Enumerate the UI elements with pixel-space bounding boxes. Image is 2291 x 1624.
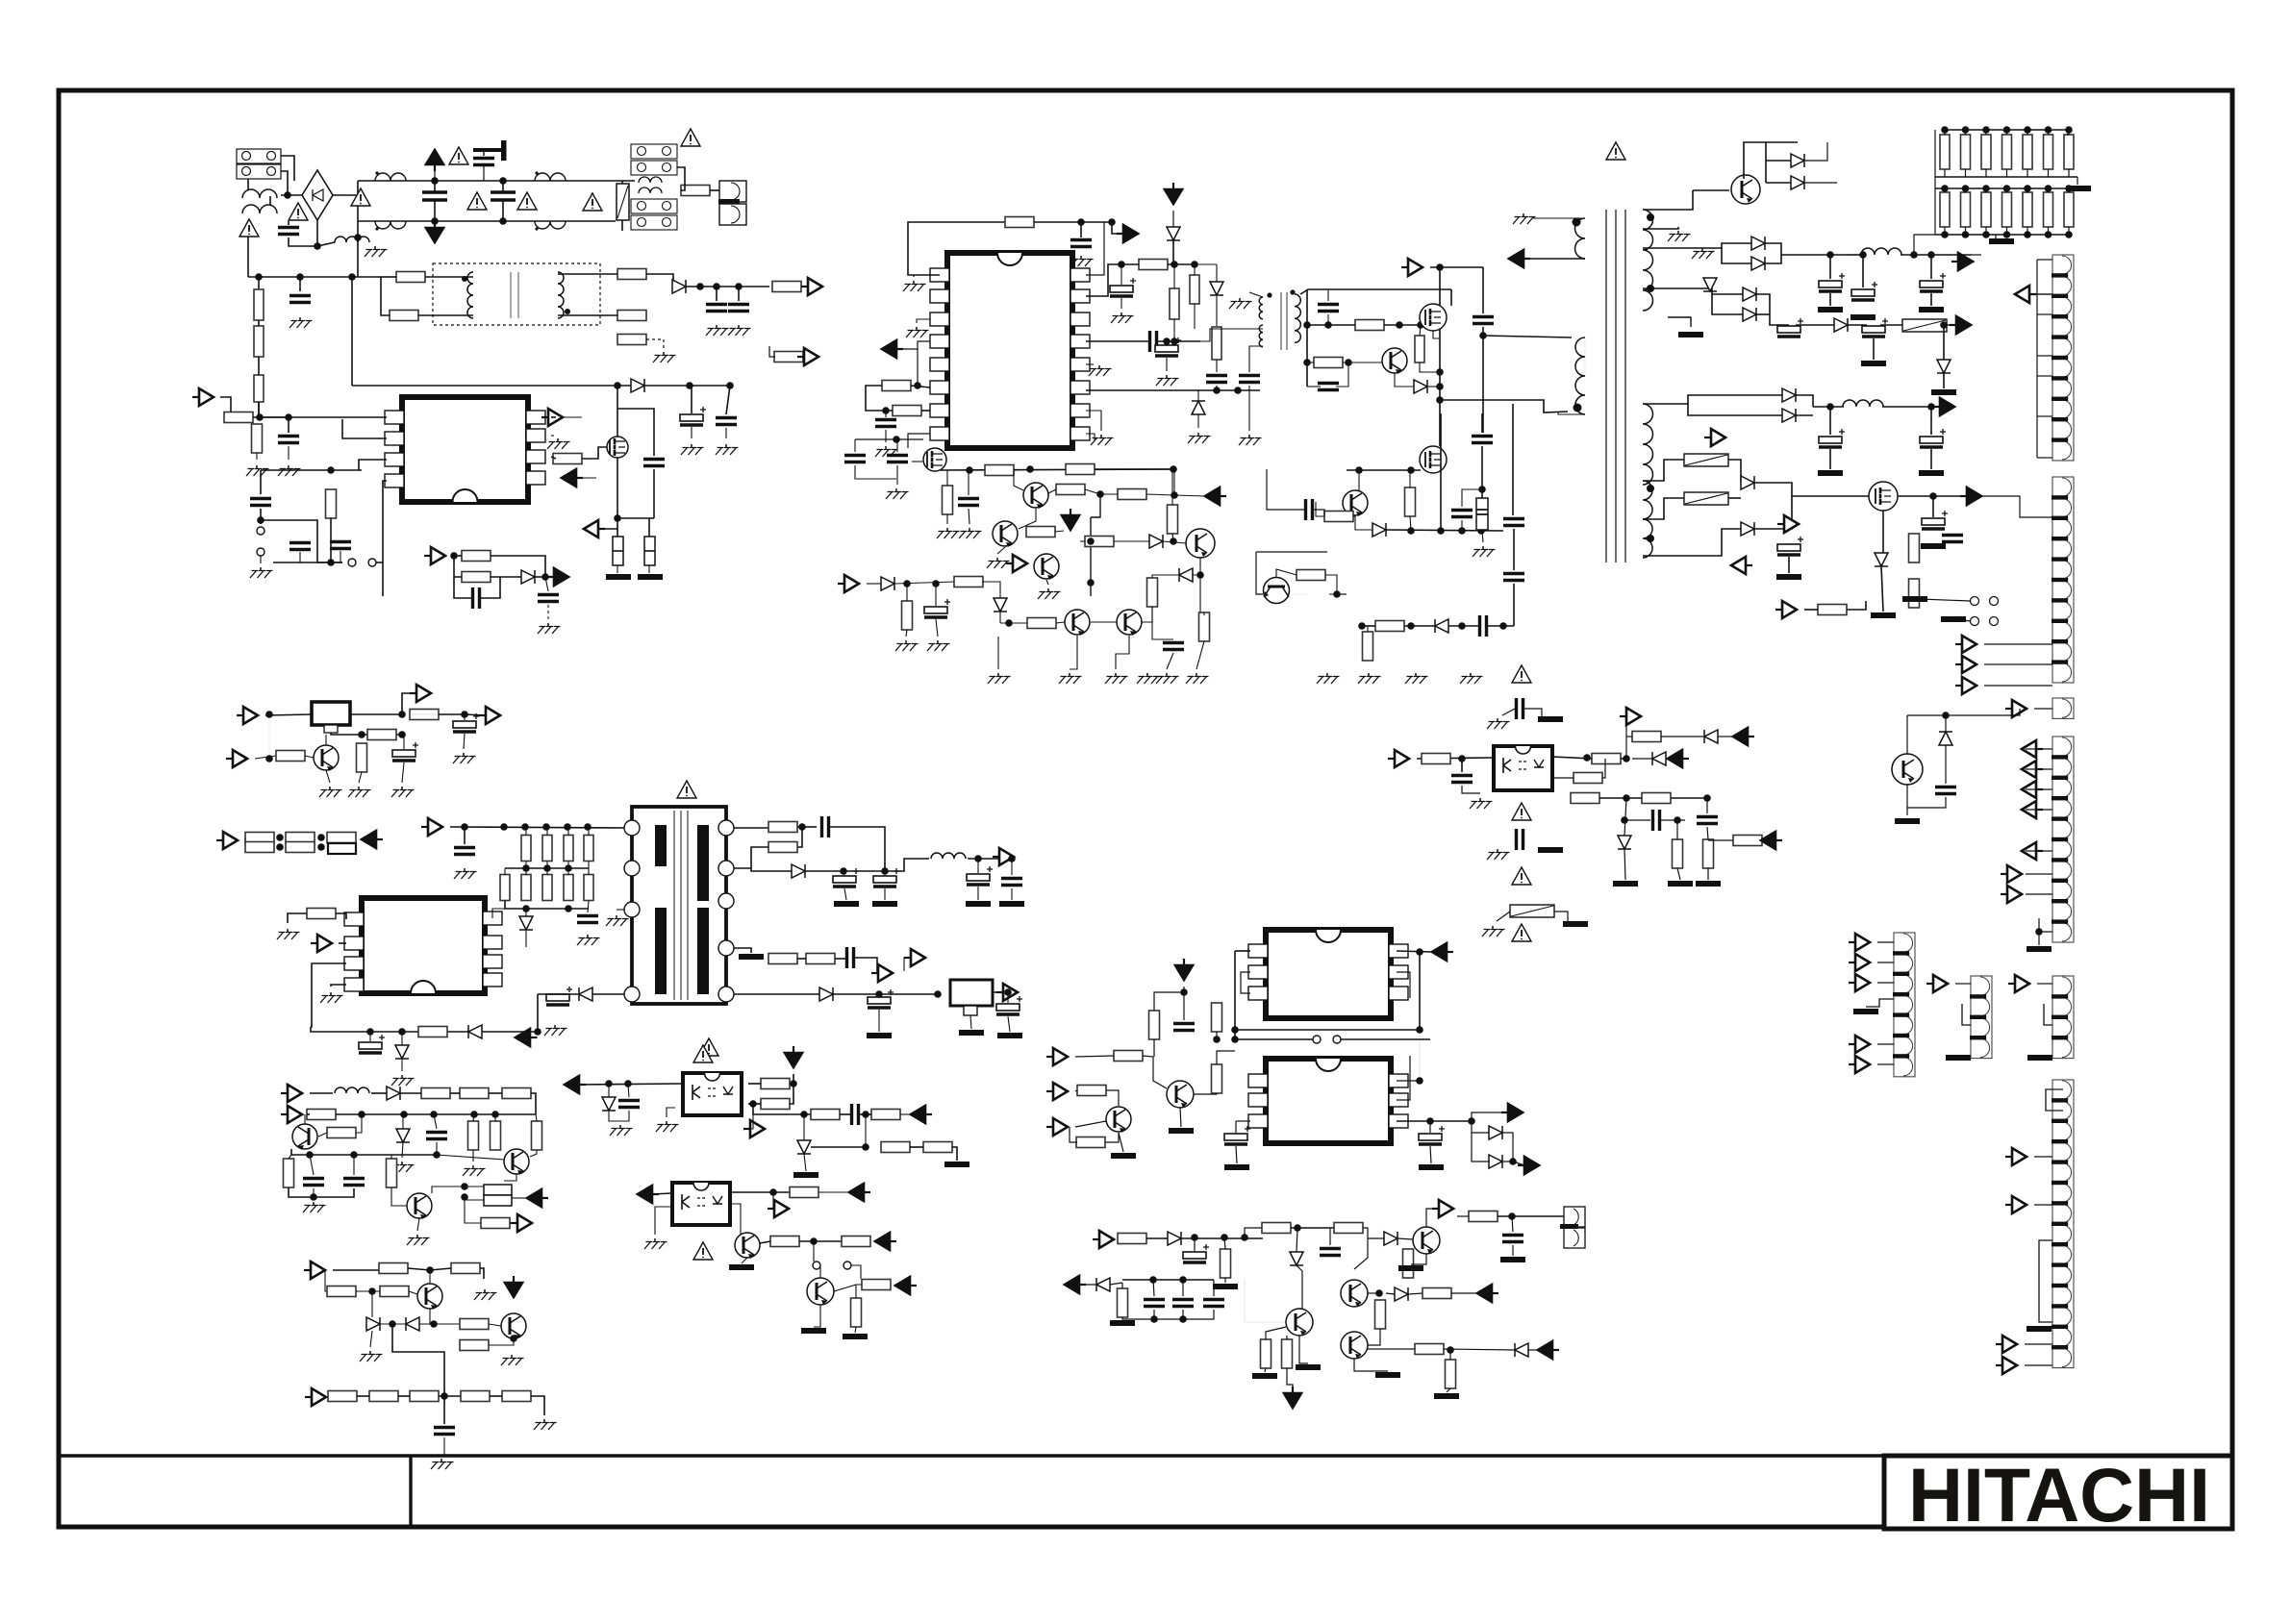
node junction (276, 843, 284, 851)
wire (804, 1154, 806, 1171)
wire (1450, 289, 1452, 306)
wire (906, 584, 908, 601)
relay coil K1 box (312, 702, 350, 725)
port arrow (875, 1233, 890, 1250)
wire (2048, 188, 2050, 192)
ground (547, 623, 549, 627)
T1 phase dot (1647, 535, 1654, 542)
ground (969, 528, 970, 532)
phase dot (1267, 292, 1271, 297)
wire (288, 913, 307, 923)
node junction (1417, 321, 1424, 329)
diode D26 (1834, 318, 1848, 332)
wire (1847, 601, 1866, 610)
wire (1985, 188, 1987, 192)
port arrow (288, 1106, 302, 1123)
port arrow (1933, 975, 1948, 992)
wire (2038, 932, 2040, 945)
resistor R24 (462, 572, 491, 583)
wire (339, 942, 346, 944)
wire (1307, 362, 1314, 363)
port arrow (486, 707, 500, 724)
wire (1197, 414, 1199, 428)
port arrow (1508, 1104, 1523, 1121)
wire (725, 428, 727, 438)
wire (439, 1395, 461, 1397)
zener ZD3 (797, 1140, 811, 1154)
wire (1901, 254, 1972, 256)
wire (818, 1191, 849, 1193)
wire (260, 470, 262, 494)
wire (1307, 324, 1355, 326)
wire (1533, 217, 1585, 219)
node junction (749, 1100, 757, 1108)
zener ZD10 (1192, 401, 1205, 414)
node junction (348, 273, 356, 281)
ground (885, 446, 887, 450)
wire (1829, 407, 1831, 435)
warning triangle (681, 129, 700, 146)
wire (843, 871, 844, 875)
bank resistor R112 (2002, 135, 2012, 169)
node junction (1458, 527, 1466, 535)
resistor R29 (245, 833, 274, 843)
node junction (366, 1028, 374, 1036)
IC1 right pin (526, 429, 545, 442)
node junction (276, 834, 284, 841)
optocoupler PC1 (683, 1073, 742, 1115)
port arrow (565, 1076, 579, 1093)
capacitor C16 (453, 721, 476, 728)
wire (382, 562, 384, 596)
T2 terminal (718, 861, 734, 876)
bank resistor R110 (1961, 135, 1971, 169)
node junction (810, 1237, 818, 1245)
node junction (1407, 466, 1415, 474)
wire (361, 735, 363, 743)
wire (1958, 619, 1970, 621)
T2 terminal (624, 902, 640, 917)
wire (1122, 1279, 1214, 1281)
wire (1200, 329, 1263, 341)
wire (291, 1149, 437, 1155)
wire (380, 1323, 406, 1325)
ground bar (1668, 881, 1693, 887)
wire (1955, 983, 1971, 985)
port arrow (638, 1186, 652, 1203)
wire (1643, 460, 1684, 481)
diode D4 (579, 987, 592, 1001)
wire (400, 1092, 421, 1094)
capacitor C10 (250, 499, 271, 506)
capacitor C59 (924, 607, 947, 613)
main transformer T1 core (1606, 210, 1625, 562)
connector CN5 pins (2052, 737, 2074, 942)
capacitor C67 (1920, 437, 1943, 443)
ground (666, 1121, 667, 1125)
20 (793, 1172, 818, 1178)
connector CN9 pins (2052, 1080, 2074, 1368)
capacitor C6 (706, 305, 727, 312)
AC inlet connector J1 (237, 149, 281, 163)
IC2 right pin (483, 936, 502, 949)
30 (1989, 238, 2014, 244)
wire (2034, 1204, 2052, 1206)
ground (260, 567, 262, 571)
wire (408, 1268, 451, 1270)
20 (843, 1334, 868, 1339)
wire (1765, 243, 1781, 255)
power transistor Q18 (1186, 529, 1215, 558)
wire (855, 465, 896, 479)
resistor R23 (462, 551, 491, 562)
wire (1291, 1227, 1334, 1229)
wire (621, 220, 623, 231)
node junction (499, 217, 507, 225)
bank resistor R120 (2023, 192, 2032, 227)
node junction (534, 1028, 541, 1036)
node junction (1087, 579, 1095, 587)
wire (1267, 469, 1304, 510)
wire (1070, 636, 1077, 669)
wire (357, 1395, 369, 1397)
wire (1353, 515, 1355, 517)
wire (1984, 663, 2052, 665)
wire (1358, 470, 1360, 490)
X-capacitor C4 (491, 192, 516, 200)
20 (2027, 1055, 2052, 1061)
wire (1167, 653, 1173, 669)
resistor R46 (768, 842, 797, 853)
resistor R150 (1446, 1360, 1456, 1388)
node junction (1170, 465, 1177, 473)
wire (473, 1114, 474, 1121)
wire (1266, 1327, 1286, 1339)
relay coil RL1 (639, 177, 662, 193)
wire (1085, 489, 1100, 494)
IC2 left pin (344, 978, 364, 991)
wire (1513, 1162, 1524, 1165)
wire (1461, 494, 1463, 507)
wire (1449, 1350, 1451, 1360)
wire (1632, 758, 1652, 760)
resistor R127 (1571, 793, 1599, 804)
ground (1482, 546, 1484, 550)
wire (1075, 1090, 1077, 1091)
node junction (862, 1143, 869, 1151)
HV drain bus wire (352, 385, 731, 387)
wire (1235, 1029, 1420, 1031)
fuse F5 (1510, 905, 1554, 917)
chassis ground bar (473, 148, 501, 152)
resistor R133 (1212, 1064, 1222, 1093)
24 (2027, 1326, 2052, 1332)
resistor R148 (1422, 1288, 1451, 1299)
ground (401, 787, 403, 790)
node junction (882, 407, 890, 414)
diode D7 (819, 987, 833, 1001)
node junction (2065, 185, 2073, 192)
wire (1877, 1043, 1894, 1045)
wire (691, 386, 692, 413)
node junction (1621, 816, 1628, 824)
wire (465, 1200, 481, 1223)
wire (261, 469, 362, 471)
node junction (840, 867, 847, 875)
half-bridge MOSFET Q10 (1420, 304, 1447, 331)
wire (1712, 294, 1743, 314)
node junction (1087, 537, 1095, 545)
diode D6 (792, 864, 805, 878)
capacitor C9 (680, 414, 703, 421)
wire (648, 518, 650, 537)
wire (834, 1285, 864, 1291)
resistor R1 (681, 186, 710, 196)
wire (686, 286, 769, 287)
wire (1847, 254, 1862, 256)
ground (1497, 849, 1498, 853)
T1 secondary winding A (1643, 210, 1653, 311)
wire (1584, 337, 1586, 376)
resistor R90c (1324, 512, 1353, 522)
node junction (914, 382, 921, 389)
wire (1995, 235, 1997, 242)
T1 primary winding B (1575, 337, 1585, 414)
warning triangle (1512, 867, 1531, 885)
wire (1898, 495, 1972, 497)
fuse F3 (1684, 454, 1728, 466)
wire (2037, 313, 2052, 315)
wire (288, 221, 290, 225)
wire (2026, 788, 2052, 790)
wire (1299, 1336, 1308, 1363)
port arrow (774, 1200, 789, 1217)
wire (1181, 1237, 1263, 1239)
wire (328, 1396, 334, 1397)
wire from inlet to HV rail (247, 221, 249, 277)
resistor R145 (1118, 1288, 1128, 1317)
resistor R85 (1212, 327, 1221, 360)
wire (1056, 622, 1065, 623)
resistor R105 (954, 577, 983, 587)
wire (730, 1204, 741, 1235)
IC4 left pin (1248, 944, 1268, 958)
port arrow (2007, 865, 2022, 883)
wire (1848, 324, 1867, 326)
ground (663, 352, 665, 356)
wire (653, 469, 655, 518)
node junction (1118, 261, 1125, 268)
resistor R57 (842, 1237, 870, 1247)
wire (330, 518, 332, 562)
node junction (1096, 490, 1104, 498)
node junction (2024, 185, 2031, 192)
node junction (2065, 126, 2073, 134)
wire (381, 276, 396, 278)
wire (1907, 714, 1946, 716)
wire (409, 1291, 417, 1294)
wire (453, 555, 462, 557)
resistor R7 (617, 269, 646, 280)
capacitor C45 (1239, 376, 1260, 383)
capacitor C26 (847, 947, 854, 968)
T2 terminal (718, 987, 734, 1002)
zener ZD2 (602, 1097, 616, 1111)
node junction (2024, 231, 2031, 238)
resistor R147 (1375, 1300, 1386, 1329)
T2 terminal (624, 987, 640, 1002)
resistor R40 (500, 875, 510, 901)
wire (403, 735, 405, 749)
IC4 right pin (1389, 944, 1408, 958)
ground (905, 640, 907, 644)
port arrow (2012, 1148, 2027, 1165)
wire (1152, 607, 1173, 639)
node junction (1077, 218, 1085, 226)
wire (1497, 912, 1510, 921)
IC3 left pin (930, 268, 949, 282)
resistor R63 (327, 1128, 356, 1138)
resistor R11 (224, 412, 253, 423)
diode D10 (1167, 227, 1180, 240)
capacitor C20 (454, 848, 475, 855)
wire (655, 1207, 672, 1235)
capacitor C49 (1451, 511, 1473, 517)
wire (1046, 580, 1048, 585)
wire (1173, 319, 1175, 341)
node junction (441, 1392, 448, 1400)
resistor R12 (252, 424, 263, 453)
port arrow (911, 1106, 925, 1123)
resistor R2 (254, 289, 264, 320)
capacitor C56 (1306, 499, 1313, 520)
node junction (1447, 1346, 1454, 1354)
node junction (461, 711, 468, 718)
wire (1944, 227, 1946, 235)
wire (1796, 324, 1834, 326)
wire (402, 693, 416, 714)
wire (1881, 566, 1883, 612)
IC4 right pin (1389, 965, 1408, 979)
wire (1265, 1368, 1266, 1372)
ground bar (1776, 574, 1801, 580)
wire (258, 320, 260, 326)
ground bar (1696, 881, 1721, 887)
resistor R102b (943, 486, 953, 514)
resistor R90b (1363, 632, 1373, 661)
resistor R9 (617, 335, 646, 345)
wire (1624, 798, 1626, 836)
ground bar (997, 1033, 1022, 1038)
port arrow (1013, 555, 1027, 572)
node junction (1355, 466, 1363, 474)
wire (545, 577, 548, 591)
resistor R94 (1066, 464, 1095, 475)
port arrow (527, 1189, 541, 1207)
wire (281, 194, 302, 196)
wire (1625, 715, 1627, 717)
T3 phase dot B (565, 309, 570, 314)
port arrow (2012, 700, 2027, 717)
port arrow (2002, 1357, 2017, 1374)
wire (525, 827, 527, 836)
wire (1770, 304, 1789, 325)
wire (1241, 972, 1250, 993)
wire (1420, 362, 1440, 372)
resistor R33 (327, 833, 356, 843)
bank resistor R115 (2064, 135, 2074, 169)
wire (734, 827, 770, 829)
sync MOSFET Q22 (1869, 482, 1898, 511)
ground (441, 1459, 442, 1462)
node junction (1179, 1276, 1187, 1284)
wire (1558, 412, 1585, 414)
wire (1943, 373, 1945, 388)
node junction (2003, 185, 2011, 192)
IC3 right pin (1070, 289, 1090, 303)
wire (398, 1395, 410, 1397)
wire (464, 734, 465, 749)
diode D33 (1704, 730, 1718, 743)
capacitor C74 (1653, 810, 1660, 831)
node junction (398, 1028, 406, 1036)
resistor R33b (bold) (328, 843, 356, 854)
resistor R100 (1027, 618, 1056, 629)
ground (1166, 375, 1168, 379)
wire (1367, 626, 1369, 632)
CN7 link (1962, 1004, 1971, 1025)
wire (1420, 325, 1421, 336)
wire (878, 994, 880, 996)
T2 terminal (718, 820, 734, 836)
resistor R80b (774, 352, 803, 362)
wire (1728, 497, 1741, 499)
wire (885, 411, 887, 417)
T2 secondary winding bar 2 (697, 908, 709, 994)
wire (2068, 188, 2070, 192)
port arrow (1432, 943, 1447, 961)
wire (340, 551, 341, 562)
wire (1792, 495, 1869, 497)
connector J2 (719, 181, 746, 202)
wire (1482, 531, 1483, 542)
wire (261, 520, 342, 562)
ground bar (999, 901, 1024, 907)
wire (383, 481, 387, 562)
capacitor C7 (728, 305, 749, 312)
capacitor C24 (873, 876, 896, 883)
wire (1153, 1280, 1154, 1296)
node junction (1407, 622, 1415, 630)
capacitor C73 (1451, 776, 1473, 783)
wire (289, 220, 317, 246)
24 (2027, 946, 2052, 952)
node junction (1170, 537, 1177, 545)
wire (483, 165, 485, 181)
wire (1602, 759, 1605, 778)
wire (738, 287, 740, 301)
diode D25 (1703, 278, 1717, 291)
node junction (564, 823, 571, 831)
wire (1397, 1238, 1413, 1239)
wire (1194, 1093, 1217, 1094)
capacitor C58 (1163, 643, 1184, 650)
wire (835, 958, 845, 960)
port arrow 5V-STB (808, 278, 822, 295)
wire (1245, 1280, 1286, 1322)
wire (993, 991, 1008, 993)
node junction (2045, 126, 2052, 134)
